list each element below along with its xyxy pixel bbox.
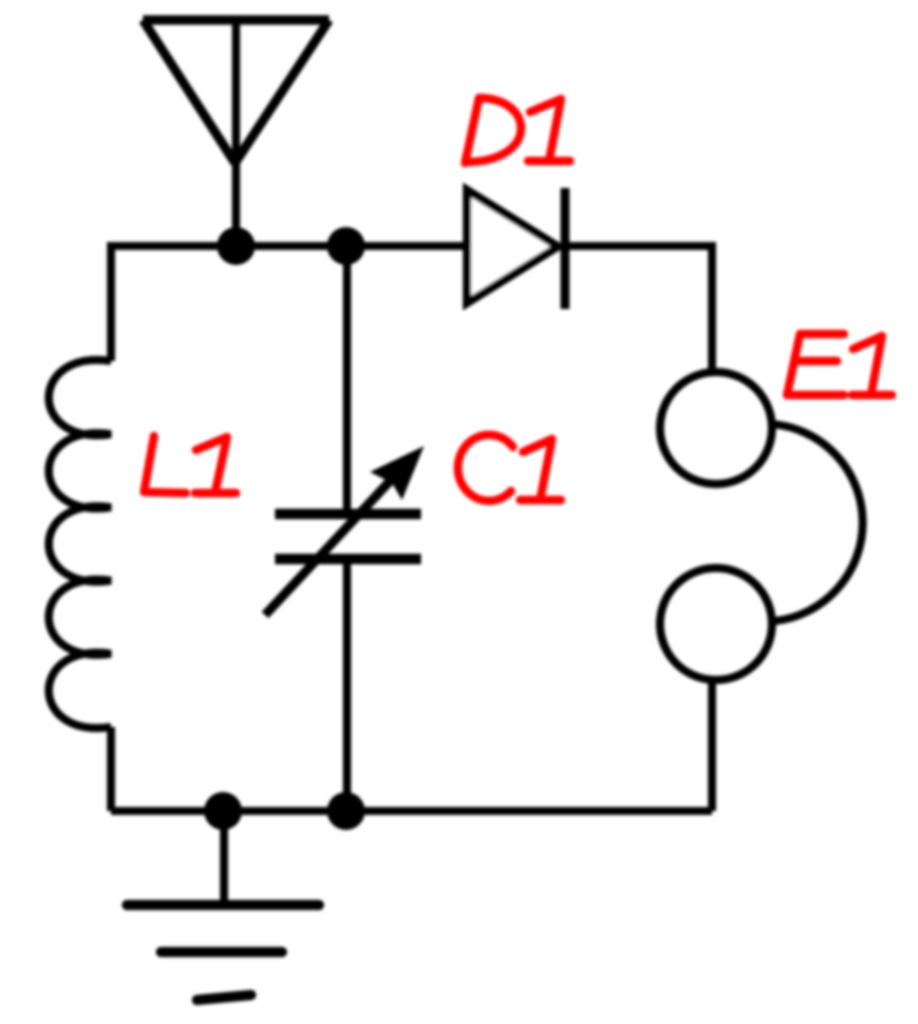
label E1 (787, 334, 892, 395)
wire capacitor upper (343, 246, 351, 511)
wire capacitor lower (343, 562, 351, 811)
node junction capacitor/bottom wire (327, 792, 365, 830)
earphone E1 (660, 372, 863, 680)
wire top-right horizontal (564, 242, 712, 250)
label D1 (465, 98, 570, 163)
wire bottom horizontal (111, 807, 712, 815)
capacitor C1 (265, 446, 424, 615)
label L1 (144, 436, 236, 493)
wire right vertical lower (708, 679, 716, 811)
wire right vertical upper (708, 242, 716, 373)
node junction antenna/top wire (217, 227, 255, 265)
node junction ground/bottom wire (204, 792, 242, 830)
diode D1 (467, 188, 565, 309)
wire top-left horizontal (111, 242, 467, 250)
wire left vertical upper (107, 242, 115, 361)
ground (127, 811, 319, 1000)
antenna (143, 20, 329, 246)
node junction capacitor/top wire (327, 227, 365, 265)
wire left vertical lower (107, 727, 115, 811)
inductor L1 (49, 360, 111, 728)
label C1 (458, 435, 561, 501)
